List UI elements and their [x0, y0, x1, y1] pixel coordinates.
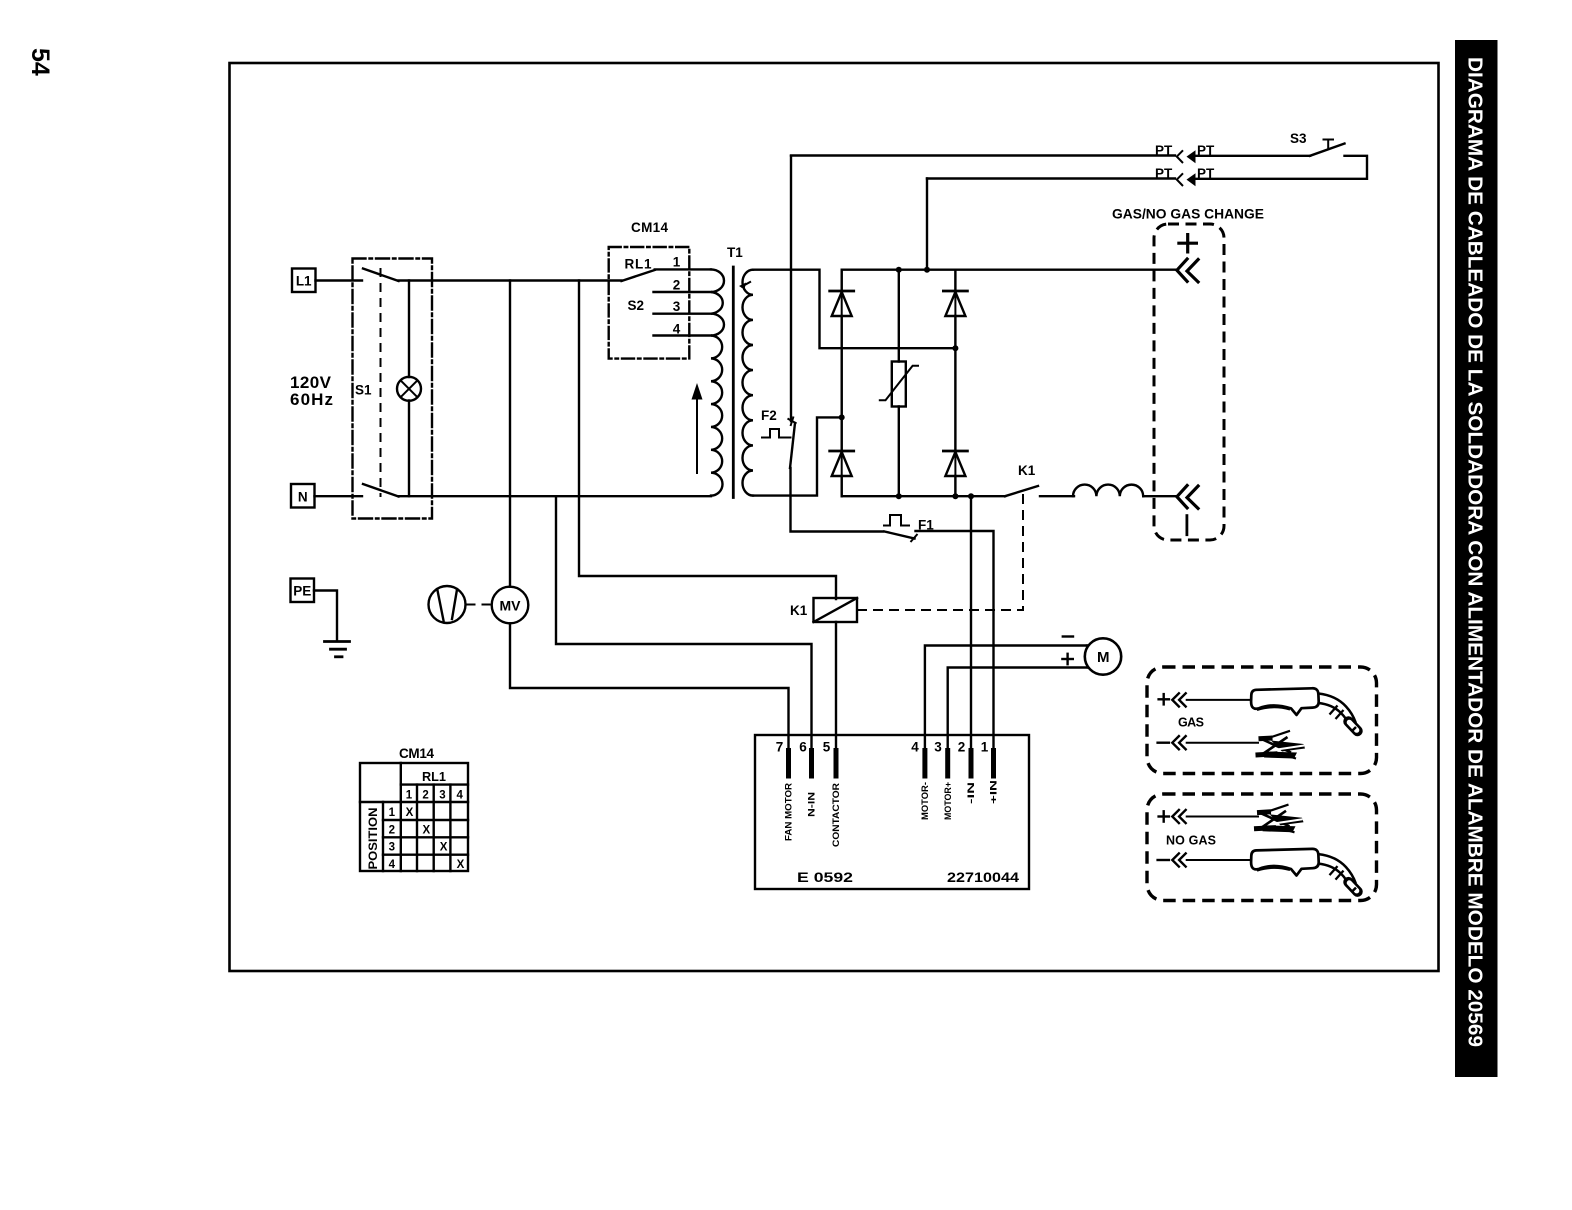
pin 1: [981, 740, 999, 805]
PT connector pair on line 2: [1177, 173, 1196, 186]
svg-text:POSITION: POSITION: [366, 808, 380, 870]
table X marks: [406, 807, 465, 871]
svg-text:L1: L1: [296, 274, 312, 289]
switch S1 (dash-dot enclosure): [353, 259, 433, 519]
svg-text:N: N: [298, 489, 308, 504]
GAS clamp wire: [1186, 742, 1259, 744]
wire K1 to inductor: [1040, 495, 1074, 497]
GAS plus chevrons: [1172, 693, 1185, 706]
S1 pole linkage dashed line: [380, 268, 382, 497]
PT trigger line 2: [927, 177, 1175, 179]
wire N rail to pin6: [556, 496, 812, 749]
svg-text:RL1: RL1: [625, 257, 652, 272]
svg-text:CONTACTOR: CONTACTOR: [831, 782, 841, 847]
wire tap 1: [655, 268, 711, 270]
wire PT line2 down to DC+: [926, 179, 928, 270]
svg-text:S1: S1: [355, 383, 372, 398]
GAS minus mark: [1158, 742, 1169, 744]
GAS legend box: [1147, 667, 1377, 774]
relay coil K1: [790, 598, 857, 622]
svg-text:22710044: 22710044: [947, 870, 1020, 885]
svg-text:GAS/NO GAS CHANGE: GAS/NO GAS CHANGE: [1112, 207, 1264, 222]
table row numbers: [389, 807, 396, 871]
pin 2: [958, 740, 976, 805]
svg-text:2: 2: [422, 790, 428, 802]
terminal L1: [292, 269, 316, 293]
MIG torch pictogram (NO GAS): [1251, 849, 1357, 892]
diode D3 (bottom left): [830, 451, 854, 496]
dashed link fan to MV: [467, 604, 492, 606]
NO GAS clamp wire: [1186, 816, 1259, 818]
minus terminal connector chevrons: [1177, 484, 1199, 509]
pilot lamp: [397, 377, 421, 401]
wire N rail: [399, 495, 712, 497]
wire K1 coil to pin5: [835, 622, 837, 749]
svg-text:1: 1: [673, 255, 681, 270]
wire L1 rail: [399, 279, 622, 281]
svg-text:2: 2: [673, 278, 681, 293]
NO GAS torch wire: [1186, 859, 1253, 861]
S1 bottom contact blade: [363, 484, 399, 497]
svg-text:5: 5: [823, 740, 831, 755]
earth clamp pictogram (GAS): [1256, 731, 1306, 759]
wire inductor to minus terminal: [1143, 495, 1176, 497]
CM14 position table: [360, 763, 468, 871]
svg-text:S3: S3: [1290, 131, 1307, 146]
inductor L1 (output choke): [1073, 485, 1143, 497]
wire PT1 down to F2: [790, 156, 792, 421]
svg-text:3: 3: [934, 740, 942, 755]
svg-text:X: X: [422, 824, 430, 836]
diode D1 (top left): [830, 270, 854, 497]
wire tap 3: [654, 313, 712, 315]
pin 6: [799, 740, 816, 818]
svg-text:4: 4: [389, 859, 396, 871]
wire PE to ground: [314, 591, 337, 642]
MIG torch pictogram (GAS): [1251, 688, 1357, 731]
wire tap 4: [654, 334, 712, 336]
svg-text:E 0592: E 0592: [797, 870, 853, 885]
wire secondary top to bridge AC1: [753, 270, 955, 349]
svg-text:MOTOR-: MOTOR-: [920, 782, 930, 820]
GAS minus chevrons: [1172, 736, 1185, 749]
svg-text:GAS: GAS: [1178, 716, 1204, 730]
wire DC+ rail: [842, 269, 1176, 271]
wire L1 rail down to MV: [509, 281, 511, 587]
svg-text:MV: MV: [500, 599, 521, 614]
wire lamp top: [408, 281, 410, 378]
svg-text:DIAGRAMA DE CABLEADO DE LA SOL: DIAGRAMA DE CABLEADO DE LA SOLDADORA CON…: [1464, 57, 1486, 1047]
breaker F1: [883, 515, 934, 542]
NO GAS plus mark: [1159, 811, 1169, 821]
pin 3: [934, 740, 953, 821]
motor M: [1062, 637, 1121, 675]
svg-text:X: X: [457, 859, 465, 871]
terminal PE: [291, 579, 315, 603]
title banner: DIAGRAMA DE CABLEADO ...: [1455, 40, 1498, 1077]
junction AC2 at left diode column: [839, 414, 845, 420]
pin 4: [911, 740, 930, 821]
svg-text:CM14: CM14: [631, 220, 668, 235]
svg-text:3: 3: [673, 299, 681, 314]
ground: [325, 642, 350, 657]
svg-text:3: 3: [389, 842, 395, 854]
wire MOTOR+: [948, 668, 1088, 750]
svg-text:PT: PT: [1155, 166, 1173, 181]
dashed control link K1 coil to K1 contact: [857, 489, 1023, 610]
GAS/NO GAS CHANGE terminal block: [1154, 224, 1224, 540]
printed circuit board: [755, 735, 1029, 889]
relay contact RL1 blade: [622, 270, 655, 281]
svg-text:PE: PE: [293, 584, 311, 599]
contactor contact K1: [1005, 463, 1038, 496]
svg-text:+IN: +IN: [989, 780, 999, 804]
junction AC1 at right diode column: [952, 345, 958, 351]
svg-text:1: 1: [406, 790, 413, 802]
plus terminal mark: [1177, 233, 1198, 254]
T1 core adjust arrow: [739, 282, 751, 290]
svg-text:6: 6: [799, 740, 807, 755]
svg-text:X: X: [406, 807, 414, 819]
svg-text:PT: PT: [1197, 166, 1215, 181]
GAS plus mark: [1159, 694, 1169, 704]
svg-text:PT: PT: [1197, 143, 1215, 158]
plus terminal connector chevrons: [1177, 258, 1199, 283]
breaker F2: [761, 408, 797, 468]
svg-text:S2: S2: [628, 298, 645, 313]
junction varistor bottom: [896, 493, 902, 499]
wire F2 to F1: [791, 468, 884, 532]
diode D4 (bottom right): [943, 451, 967, 496]
varistor RV: [879, 270, 919, 497]
svg-text:FAN MOTOR: FAN MOTOR: [784, 782, 794, 841]
T1 secondary winding: [743, 270, 754, 496]
junction PT feed: [924, 267, 930, 273]
svg-text:7: 7: [776, 740, 784, 755]
NO GAS plus chevrons: [1172, 810, 1185, 823]
wire N to S1: [315, 495, 363, 497]
svg-text:1: 1: [981, 740, 989, 755]
svg-text:K1: K1: [790, 603, 808, 618]
wire S3 to line 2: [1192, 156, 1367, 179]
wire DC- rail: [842, 495, 1005, 497]
svg-text:3: 3: [439, 790, 445, 802]
svg-text:RL1: RL1: [422, 770, 446, 784]
wire DC- to -IN: [970, 496, 972, 749]
wire MOTOR-: [925, 646, 1087, 750]
svg-text:X: X: [440, 842, 448, 854]
pin 7: [776, 740, 794, 842]
svg-text:T1: T1: [727, 245, 743, 260]
svg-text:N-IN: N-IN: [807, 792, 817, 817]
pin 5: [823, 740, 841, 848]
drawing border frame: [230, 63, 1439, 971]
fan symbol: [429, 586, 466, 623]
svg-text:CM14: CM14: [399, 746, 434, 761]
svg-text:2: 2: [389, 824, 395, 836]
wire tap 2: [654, 291, 712, 293]
fan motor MV: [492, 587, 529, 624]
svg-text:4: 4: [456, 790, 463, 802]
GAS torch wire: [1186, 699, 1253, 701]
PT trigger line 1: [791, 154, 1175, 156]
T1 winding arrow: [692, 383, 703, 474]
minus terminal mark: [1186, 516, 1189, 535]
svg-text:K1: K1: [1018, 463, 1036, 478]
svg-text:54: 54: [26, 48, 54, 76]
svg-text:F2: F2: [761, 408, 777, 423]
wire secondary bottom to bridge AC2: [753, 417, 842, 495]
S1 top contact blade: [363, 269, 399, 282]
table column numbers: [406, 790, 464, 802]
PT connector pair on line 1: [1177, 150, 1196, 163]
junction varistor top: [896, 267, 902, 273]
wire MV to pin7: [510, 623, 789, 749]
svg-text:4: 4: [911, 740, 919, 755]
diode D2 (top right): [943, 270, 967, 497]
T1 core: [732, 267, 735, 498]
wire lamp bottom: [408, 401, 410, 497]
wire L1 rail to K1 coil: [579, 281, 836, 600]
svg-text:M: M: [1097, 649, 1110, 666]
NO GAS legend box: [1147, 794, 1377, 901]
earth clamp pictogram (NO GAS): [1254, 805, 1304, 833]
wire F1 to +IN: [916, 531, 994, 749]
svg-text:1: 1: [389, 807, 396, 819]
terminal N: [291, 484, 315, 508]
junction to -IN: [968, 493, 974, 499]
svg-text:60Hz: 60Hz: [290, 390, 333, 409]
svg-text:MOTOR+: MOTOR+: [943, 782, 953, 820]
svg-text:PT: PT: [1155, 143, 1173, 158]
svg-text:4: 4: [673, 322, 681, 337]
svg-text:-IN: -IN: [966, 782, 976, 804]
CM14 connector enclosure (top): [609, 247, 690, 359]
NO GAS minus chevrons: [1172, 853, 1185, 866]
T1 primary winding: [711, 269, 724, 495]
wire L1 to S1: [316, 279, 363, 281]
junction right column bottom: [952, 493, 958, 499]
NO GAS minus mark: [1158, 859, 1169, 861]
svg-text:NO GAS: NO GAS: [1166, 834, 1216, 848]
switch S3: [1290, 131, 1345, 156]
svg-text:2: 2: [958, 740, 966, 755]
